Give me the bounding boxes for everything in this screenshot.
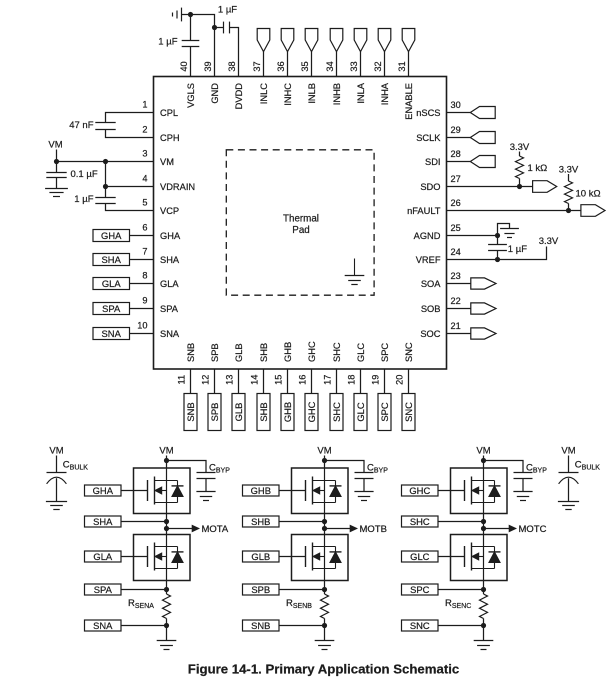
wire CBULK to ground [568, 478, 570, 501]
node SPC [481, 587, 486, 592]
node DVDD cap tap on GND wire [212, 25, 217, 30]
net label SNC (pin 20) [402, 394, 415, 431]
wire VM to CBULK [56, 456, 58, 473]
svg-text:9: 9 [142, 296, 147, 306]
wire RSENC to SNC node [483, 619, 485, 641]
svg-text:31: 31 [397, 61, 407, 71]
svg-text:SPA: SPA [160, 304, 179, 314]
wire pin 20 stub [408, 369, 410, 394]
wire pin 28 SDI [447, 161, 471, 163]
capacitor CBULK [47, 472, 67, 474]
capacitor C4 0.1uF (VM) [46, 172, 66, 174]
svg-text:MOTA: MOTA [202, 524, 229, 535]
ground (CBYP phase B) [354, 491, 373, 493]
capacitor C6 1uF (VREF) [488, 244, 507, 246]
svg-text:5: 5 [142, 198, 147, 208]
svg-text:35: 35 [300, 61, 310, 71]
svg-text:SHB: SHB [251, 516, 270, 527]
svg-text:1 µF: 1 µF [74, 194, 93, 205]
svg-text:SDI: SDI [425, 157, 441, 167]
net label SPA [85, 584, 122, 595]
thermal pad outline (dashed) [226, 150, 374, 295]
svg-text:SNB: SNB [186, 343, 196, 362]
wire GND node to pin 39 [191, 15, 215, 77]
MOSFET Q low-side (phase C) [451, 535, 508, 581]
svg-text:GHA: GHA [160, 231, 181, 241]
ground (AGND) [500, 228, 519, 230]
wire high-side source to SHA node [166, 514, 168, 535]
net label SPB (pin 12) [208, 394, 221, 431]
wire VM to CBYP (phase A) [167, 461, 207, 473]
svg-text:32: 32 [373, 61, 383, 71]
wire VM stub [56, 150, 58, 162]
svg-text:SNC: SNC [410, 620, 430, 631]
wire RSENA to SNA node [166, 619, 168, 641]
svg-text:19: 19 [371, 375, 381, 385]
wire pin 12 stub [214, 369, 216, 394]
wire pin 26 nFAULT [447, 210, 581, 212]
wire MOTB arrow [325, 528, 353, 530]
net label SPC [402, 584, 439, 595]
wire C6 to VREF [497, 251, 499, 260]
output terminal nFAULT [581, 205, 605, 217]
input terminal (pin 31) [402, 29, 415, 52]
wire SNB label to node [279, 625, 325, 627]
input terminal (pin 37) [257, 29, 270, 52]
wire pin 32 input stub [384, 52, 386, 77]
wire C5 to pin 5 VCP [106, 204, 154, 211]
wire pin 29 SCLK [447, 137, 471, 139]
wire pin 15 stub [287, 369, 289, 394]
wire pin 14 stub [263, 369, 265, 394]
wire pin 6 GHA [130, 235, 154, 237]
svg-text:7: 7 [142, 247, 147, 257]
svg-text:GHB: GHB [283, 342, 293, 362]
svg-text:26: 26 [451, 198, 461, 208]
svg-text:GLB: GLB [233, 403, 244, 422]
wire pin 35 input stub [311, 52, 313, 77]
svg-text:SPC: SPC [380, 343, 390, 362]
svg-text:10 kΩ: 10 kΩ [576, 189, 601, 200]
wire C3 to pin 2 CPH [106, 130, 154, 138]
wire pin 34 input stub [336, 52, 338, 77]
svg-text:Figure 14-1. Primary Applicati: Figure 14-1. Primary Application Schemat… [188, 662, 459, 677]
node VREF junction [495, 257, 500, 262]
output terminal SOA [471, 278, 496, 289]
ground (CBYP phase A) [196, 491, 215, 493]
wire junction to C5 [105, 187, 107, 198]
wire pin 37 input stub [263, 52, 265, 77]
svg-text:16: 16 [298, 375, 308, 385]
node VDRAIN / C5 junction [103, 184, 108, 189]
node SHA [164, 519, 169, 524]
svg-text:CBYP: CBYP [209, 463, 230, 475]
svg-text:GHC: GHC [306, 401, 317, 422]
resistor RSENC [480, 594, 488, 619]
svg-text:36: 36 [276, 61, 286, 71]
svg-text:GLA: GLA [102, 278, 122, 289]
svg-text:VCP: VCP [160, 206, 179, 216]
svg-text:CBULK: CBULK [63, 460, 88, 472]
svg-text:GLA: GLA [160, 279, 179, 289]
svg-text:Pad: Pad [292, 225, 309, 236]
wire pin 9 SPA [130, 308, 154, 310]
svg-text:CBYP: CBYP [367, 463, 388, 475]
svg-text:34: 34 [325, 61, 335, 71]
resistor R1 1 kOhm [516, 156, 524, 179]
svg-text:CBYP: CBYP [526, 463, 547, 475]
net label SNA [85, 620, 122, 631]
wire CBYP to ground (phase C) [522, 479, 524, 492]
svg-text:4: 4 [142, 174, 147, 184]
svg-text:SCLK: SCLK [416, 133, 441, 143]
resistor RSENA [163, 594, 171, 619]
input terminal nSCS [470, 107, 495, 119]
wire SPC label to node [438, 589, 484, 591]
wire pin 4 VDRAIN [106, 186, 154, 188]
wire pin 17 stub [336, 369, 338, 394]
svg-text:MOTB: MOTB [360, 524, 387, 535]
svg-text:CPH: CPH [160, 133, 180, 143]
MOSFET Q high-side (phase A) [134, 468, 191, 514]
svg-text:21: 21 [451, 321, 461, 331]
resistor R2 10 kOhm [565, 181, 573, 204]
svg-text:20: 20 [395, 375, 405, 385]
net label SHC (pin 17) [330, 394, 343, 431]
svg-text:SHA: SHA [93, 516, 113, 527]
svg-text:nFAULT: nFAULT [407, 206, 441, 216]
svg-text:GLC: GLC [355, 402, 366, 422]
svg-text:SDO: SDO [420, 182, 440, 192]
node SPB [322, 587, 327, 592]
svg-text:3.3V: 3.3V [510, 142, 530, 153]
svg-text:GLA: GLA [93, 551, 113, 562]
wire AGND up-step to ground [498, 224, 510, 236]
svg-text:25: 25 [451, 223, 461, 233]
wire pin 24 VREF to 3.3V [447, 247, 547, 260]
input terminal (pin 32) [378, 29, 391, 52]
svg-text:VREF: VREF [416, 255, 441, 265]
node VM / C5 branch junction [103, 159, 108, 164]
svg-text:VM: VM [49, 446, 63, 457]
node MOTB [322, 526, 327, 531]
net label SHB [243, 516, 280, 527]
capacitor C1 1uF (VGLS) [182, 40, 200, 42]
svg-text:0.1 µF: 0.1 µF [71, 169, 98, 180]
input terminal (pin 35) [305, 29, 318, 52]
net label SNB [243, 620, 280, 631]
svg-text:SPA: SPA [102, 303, 121, 314]
svg-text:DVDD: DVDD [234, 83, 244, 110]
svg-text:GND: GND [210, 83, 220, 104]
wire VM to CBYP (phase C) [484, 461, 524, 473]
wire VM to CBYP (phase B) [325, 461, 365, 473]
node VM junction (phase B) [322, 458, 327, 463]
wire pin 33 input stub [360, 52, 362, 77]
capacitor C2 1uF (DVDD) [223, 22, 225, 34]
svg-text:CPL: CPL [160, 108, 178, 118]
wire pin 22 SOB [447, 308, 471, 310]
wire 3.3V to R1 [519, 152, 521, 157]
input terminal SCLK [470, 132, 495, 144]
wire low-side source to SPB [324, 581, 326, 595]
wire pin 39 tap to C2 [215, 27, 224, 29]
svg-text:INLB: INLB [307, 83, 317, 104]
svg-text:39: 39 [203, 61, 213, 71]
wire pin 25 AGND [447, 235, 498, 237]
net label GLB [243, 551, 280, 562]
wire low-side source to SPA [166, 581, 168, 595]
svg-text:SOB: SOB [421, 304, 441, 314]
svg-text:SHA: SHA [102, 254, 122, 265]
node SPA [164, 587, 169, 592]
svg-text:SHC: SHC [410, 516, 430, 527]
wire pin 3 VM rail [57, 161, 154, 163]
node VM junction (phase A) [164, 458, 169, 463]
wire pin 21 SOC [447, 333, 471, 335]
wire CBYP to ground (phase B) [363, 479, 365, 492]
svg-text:RSENA: RSENA [128, 598, 154, 610]
svg-text:11: 11 [177, 375, 187, 385]
svg-text:SOC: SOC [420, 329, 440, 339]
svg-text:18: 18 [347, 375, 357, 385]
svg-text:VM: VM [48, 140, 62, 151]
wire C2 to pin 38 DVDD [230, 28, 239, 77]
wire AGND to C6 [497, 236, 499, 245]
svg-text:MOTC: MOTC [519, 524, 547, 535]
node SNB [322, 623, 327, 628]
svg-text:3.3V: 3.3V [559, 165, 579, 176]
input terminal (pin 33) [354, 29, 367, 52]
wire SHC label to node [438, 521, 484, 523]
net label GHB [243, 485, 280, 496]
net label SNB (pin 11) [184, 394, 197, 431]
wire RSENB to SNB node [324, 619, 326, 641]
wire pin 7 SHA [130, 259, 154, 261]
svg-text:SPA: SPA [94, 584, 113, 595]
wire R2 to nFAULT [568, 204, 570, 211]
net label SHC [402, 516, 439, 527]
net label SHA [85, 516, 122, 527]
svg-text:17: 17 [323, 375, 333, 385]
svg-text:38: 38 [227, 61, 237, 71]
node GND top junction [188, 12, 193, 17]
MOSFET Q high-side (phase B) [292, 468, 349, 514]
svg-text:INHC: INHC [283, 83, 293, 106]
svg-text:RSENC: RSENC [445, 598, 471, 610]
svg-text:AGND: AGND [414, 231, 441, 241]
ground (VM bypass) [45, 188, 68, 190]
net label SPB [243, 584, 280, 595]
svg-text:GLC: GLC [356, 343, 366, 362]
wire C4 to ground [56, 178, 58, 189]
svg-text:SNA: SNA [93, 620, 113, 631]
svg-text:GLB: GLB [234, 343, 244, 362]
svg-text:VM: VM [160, 157, 174, 167]
svg-text:GHA: GHA [101, 230, 122, 241]
capacitor CBYP (phase A) [197, 472, 216, 474]
svg-text:6: 6 [142, 223, 147, 233]
node SHC [481, 519, 486, 524]
svg-text:2: 2 [142, 125, 147, 135]
svg-text:1: 1 [142, 100, 147, 110]
svg-text:1 µF: 1 µF [508, 244, 527, 255]
node SNC [481, 623, 486, 628]
wire pin 11 stub [190, 369, 192, 394]
svg-text:SNB: SNB [185, 402, 196, 421]
node SHB [322, 519, 327, 524]
svg-text:15: 15 [274, 375, 284, 385]
svg-text:SPB: SPB [209, 403, 220, 422]
ground (CBYP phase C) [513, 491, 532, 493]
wire VM to CBULK [568, 456, 570, 473]
net label GLC [402, 551, 439, 562]
svg-text:GHC: GHC [307, 341, 317, 362]
output terminal SDO [533, 181, 557, 193]
thermal pad ground [354, 259, 356, 276]
resistor RSENB [321, 594, 329, 619]
ground (phase C) [474, 640, 494, 642]
node VM / C4 junction [54, 159, 59, 164]
svg-text:VM: VM [561, 446, 575, 457]
ground (CBULK) [558, 501, 579, 503]
svg-text:28: 28 [451, 149, 461, 159]
capacitor C3 47nF (CPL-CPH) [95, 122, 115, 124]
wire pin 1 CPL to C3 [106, 113, 154, 123]
node SDO pull-up junction [517, 184, 522, 189]
node SNA [164, 623, 169, 628]
svg-text:SPC: SPC [410, 584, 430, 595]
wire pin 13 stub [238, 369, 240, 394]
ground (phase A) [157, 640, 177, 642]
wire pin 10 SNA [130, 333, 154, 335]
capacitor CBYP (phase B) [355, 472, 374, 474]
svg-text:SPC: SPC [379, 402, 390, 422]
svg-text:GLB: GLB [251, 551, 270, 562]
IC U1 DRV8353 gate driver (40-pin QFN body) [154, 77, 447, 370]
net label SHB (pin 14) [257, 394, 270, 431]
svg-text:1 µF: 1 µF [158, 37, 177, 48]
node MOTC [481, 526, 486, 531]
wire high-side source to SHB node [324, 514, 326, 535]
svg-text:SNC: SNC [404, 342, 414, 362]
svg-text:GHB: GHB [282, 402, 293, 422]
wire SPB label to node [279, 589, 325, 591]
wire SNA label to node [121, 625, 167, 627]
svg-text:GHC: GHC [409, 485, 430, 496]
wire VM stub (phase C) [483, 456, 485, 469]
svg-text:SHB: SHB [259, 343, 269, 362]
net label GLC (pin 18) [354, 394, 367, 431]
net label GHA (pin 6) [93, 230, 130, 242]
svg-text:27: 27 [451, 174, 461, 184]
net label SNC [402, 620, 439, 631]
wire VM branch down to pin 4 row [105, 162, 107, 187]
MOSFET Q high-side (phase C) [451, 468, 508, 514]
svg-text:ENABLE: ENABLE [404, 83, 414, 120]
net label GLA [85, 551, 122, 562]
net label SPA (pin 9) [93, 303, 130, 315]
wire pin 40 VGLS stub [190, 47, 192, 77]
svg-text:SNB: SNB [251, 620, 270, 631]
svg-text:SHC: SHC [331, 402, 342, 422]
wire MOTA arrow [167, 528, 195, 530]
node AGND junction [495, 233, 500, 238]
wire pin 19 stub [384, 369, 386, 394]
net label SPC (pin 19) [378, 394, 391, 431]
wire high-side source to SHC node [483, 514, 485, 535]
capacitor C5 1uF (VCP-VM) [95, 197, 115, 199]
svg-text:VDRAIN: VDRAIN [160, 182, 195, 192]
wire SHA label to node [121, 521, 167, 523]
wire pin 30 nSCS [447, 112, 471, 114]
net label GLA (pin 8) [93, 278, 130, 290]
svg-text:SHC: SHC [332, 342, 342, 362]
net label GHA [85, 485, 122, 496]
node VM junction (phase C) [481, 458, 486, 463]
svg-text:Thermal: Thermal [283, 214, 319, 225]
net label SHA (pin 7) [93, 254, 130, 266]
svg-text:3: 3 [142, 149, 147, 159]
svg-text:1 µF: 1 µF [218, 5, 237, 16]
svg-text:SHB: SHB [258, 402, 269, 421]
wire MOTC arrow [484, 528, 512, 530]
svg-text:1 kΩ: 1 kΩ [528, 163, 548, 174]
svg-text:VM: VM [476, 446, 490, 457]
MOSFET Q low-side (phase B) [292, 535, 349, 581]
wire CBULK to ground [56, 478, 58, 501]
svg-text:3.3V: 3.3V [539, 236, 559, 247]
svg-text:SOA: SOA [421, 279, 441, 289]
svg-text:40: 40 [179, 61, 189, 71]
svg-text:VM: VM [317, 446, 331, 457]
svg-text:24: 24 [451, 247, 461, 257]
wire 3.3V to R2 [568, 174, 570, 181]
svg-text:14: 14 [250, 375, 260, 385]
svg-text:INHA: INHA [380, 82, 390, 105]
svg-text:GLC: GLC [410, 551, 430, 562]
svg-text:37: 37 [252, 61, 262, 71]
wire SHB label to node [279, 521, 325, 523]
svg-text:8: 8 [142, 271, 147, 281]
svg-text:CBULK: CBULK [575, 460, 600, 472]
svg-text:SPB: SPB [251, 584, 270, 595]
svg-text:SNA: SNA [160, 329, 180, 339]
svg-text:INLA: INLA [356, 82, 366, 103]
MOSFET Q low-side (phase A) [134, 535, 191, 581]
wire SPA label to node [121, 589, 167, 591]
svg-text:GHA: GHA [93, 485, 114, 496]
ground (top left) [182, 14, 191, 16]
input terminal (pin 36) [281, 29, 294, 52]
ground (phase B) [315, 640, 335, 642]
wire VM to C4 [56, 162, 58, 173]
svg-text:10: 10 [137, 321, 147, 331]
svg-text:12: 12 [201, 375, 211, 385]
net label SNA (pin 10) [93, 328, 130, 340]
svg-text:SPB: SPB [210, 343, 220, 362]
wire pin 36 input stub [287, 52, 289, 77]
net label GHC [402, 485, 439, 496]
wire VM stub (phase B) [324, 456, 326, 469]
svg-text:33: 33 [349, 61, 359, 71]
svg-text:nSCS: nSCS [416, 108, 440, 118]
node nFAULT pull-up junction [566, 208, 571, 213]
wire low-side source to SPC [483, 581, 485, 595]
wire pin 23 SOA [447, 283, 471, 285]
wire SNC label to node [438, 625, 484, 627]
wire pin 27 SDO [447, 186, 533, 188]
